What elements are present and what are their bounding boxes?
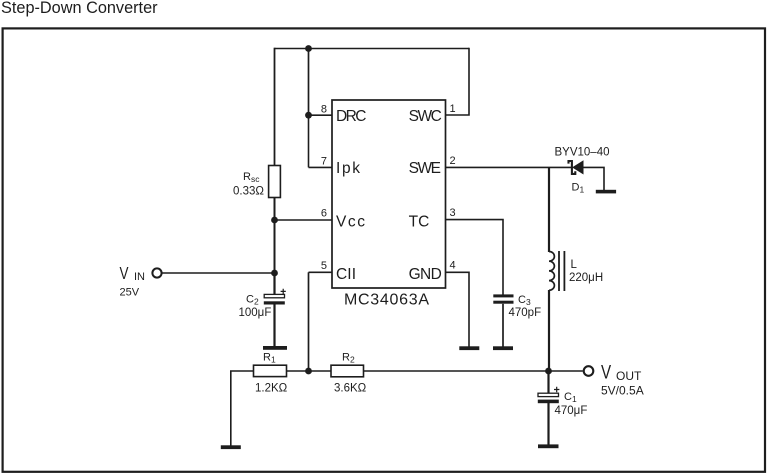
svg-text:BYV10–40: BYV10–40 (555, 147, 610, 159)
svg-text:470pF: 470pF (509, 307, 542, 319)
svg-text:TC: TC (409, 213, 430, 230)
wire output node to VOUT terminal (549, 370, 583, 372)
wire C2 to ground (273, 304, 275, 346)
svg-text:7: 7 (321, 155, 327, 167)
resistor Rsc (269, 166, 281, 198)
node junction pin 6 (271, 217, 278, 224)
svg-text:1: 1 (450, 103, 456, 115)
wire R1 right lead (287, 370, 309, 372)
svg-text:25V: 25V (120, 287, 140, 299)
wire VIN to node (162, 272, 274, 274)
svg-text:SWE: SWE (409, 160, 441, 177)
IC U1 MC34063A box (332, 100, 446, 288)
capacitor C2 top plate (264, 294, 284, 297)
capacitor C1 bottom plate (538, 400, 559, 404)
diode D1 schottky cathode bar (569, 161, 576, 174)
svg-text:5V/0.5A: 5V/0.5A (601, 384, 644, 398)
svg-text:8: 8 (321, 104, 327, 116)
ground pin 4 (459, 346, 479, 350)
wire SWE tap down to inductor (548, 167, 550, 252)
node junction on top rail (305, 45, 312, 52)
resistor R2 (331, 365, 364, 377)
svg-text:3: 3 (450, 207, 456, 219)
svg-text:4: 4 (450, 260, 456, 272)
node junction feedback (305, 368, 312, 375)
node junction output (545, 368, 552, 375)
svg-text:MC34063A: MC34063A (344, 292, 429, 309)
capacitor C2 plus sign (281, 289, 286, 294)
svg-text:Vcc: Vcc (336, 213, 365, 230)
svg-text:CII: CII (336, 266, 356, 283)
terminal VIN circle (152, 268, 161, 277)
diode D1 triangle (573, 161, 583, 173)
capacitor C1 plus sign (554, 387, 559, 392)
svg-text:100μF: 100μF (239, 307, 272, 319)
wire R1 left lead (231, 371, 254, 446)
svg-text:2: 2 (450, 155, 456, 167)
node junction pin 8 (305, 112, 312, 119)
wire pin 7 stub (309, 166, 333, 168)
svg-text:Ipk: Ipk (336, 160, 360, 177)
svg-text:V: V (601, 361, 612, 383)
wire VIN node down to C2 (273, 273, 275, 294)
ground C1 (538, 444, 559, 448)
svg-text:Step-Down Converter: Step-Down Converter (1, 0, 158, 17)
inductor core line 2 (563, 251, 565, 291)
wire right vertical from rail to pin 1 (446, 48, 469, 115)
ground C3 (493, 346, 513, 350)
svg-text:220μH: 220μH (569, 272, 603, 284)
capacitor C1 top plate (538, 393, 559, 396)
ground D1 (596, 190, 616, 194)
wire R2 to output node (364, 370, 549, 372)
node junction VIN (271, 270, 278, 277)
svg-text:6: 6 (321, 208, 327, 220)
wire pin 5 stub (309, 271, 333, 273)
wire drop to pin 8 (308, 49, 310, 116)
svg-text:GND: GND (409, 266, 442, 283)
wire diode anode to ground (583, 167, 604, 190)
wire C1 to ground (547, 403, 549, 445)
wire pin 8 stub (309, 114, 333, 116)
wire C3 to ground (502, 304, 504, 347)
svg-text:5: 5 (321, 260, 327, 272)
ground R1 (221, 445, 241, 449)
wire top rail (275, 48, 470, 50)
terminal VOUT circle (584, 366, 594, 376)
inductor core line 1 (558, 251, 560, 291)
svg-text:0.33Ω: 0.33Ω (233, 186, 264, 198)
svg-text:OUT: OUT (616, 369, 642, 383)
inductor L coil (549, 252, 554, 291)
capacitor C3 top plate (493, 294, 513, 297)
wire pin 3 TC to C3 (446, 220, 503, 295)
svg-text:DRC: DRC (336, 108, 367, 125)
wire pin 5 down to feedback node (308, 272, 310, 371)
wire pin 2 SWE to diode (446, 166, 571, 168)
wire inductor to output node (548, 290, 550, 371)
wire pin 4 GND to ground (446, 272, 469, 346)
wire Rsc to Vin node (274, 198, 276, 274)
svg-text:SWC: SWC (409, 108, 442, 125)
svg-text:V: V (120, 264, 129, 283)
wire output node down to C1 (547, 371, 549, 393)
svg-text:1.2KΩ: 1.2KΩ (255, 383, 288, 395)
ground C2 (263, 346, 287, 350)
wire left drop to Rsc (274, 48, 276, 166)
wire pin 6 to Rsc line (275, 219, 333, 221)
capacitor C2 bottom plate (264, 301, 285, 304)
svg-text:470μF: 470μF (555, 405, 588, 417)
wire R2 left lead (309, 370, 332, 372)
svg-text:3.6KΩ: 3.6KΩ (334, 383, 367, 395)
resistor R1 (254, 365, 287, 376)
svg-text:L: L (571, 259, 578, 271)
wire pin 8 node to pin 7 (308, 115, 310, 167)
svg-text:IN: IN (134, 271, 145, 283)
capacitor C3 bottom plate (493, 301, 513, 304)
